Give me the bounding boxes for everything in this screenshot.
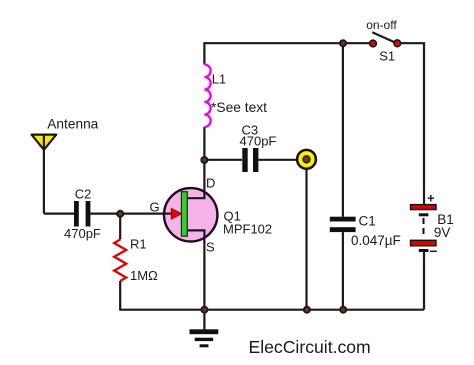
node ground junction	[201, 307, 207, 313]
svg-text:470pF: 470pF	[240, 133, 277, 148]
wire antenna to C2	[44, 213, 74, 215]
wire jack down to rail	[305, 170, 307, 310]
label S1	[379, 49, 395, 64]
wire R1 bottom lead	[119, 281, 121, 310]
svg-text:L1: L1	[212, 72, 226, 87]
node drain junction	[201, 157, 207, 163]
label G	[150, 200, 160, 215]
svg-text:G: G	[150, 200, 160, 215]
battery B1	[411, 205, 437, 252]
inductor L1	[204, 65, 210, 128]
svg-text:0.047µF: 0.047µF	[351, 233, 401, 248]
Q1 drain lead	[186, 158, 204, 198]
wire bottom rail	[119, 309, 424, 311]
svg-text:R1: R1	[130, 237, 147, 252]
label 9V	[434, 225, 451, 240]
wire L1 branch top	[203, 42, 205, 64]
node top rail junction	[340, 40, 346, 46]
Q1 gate arrow	[171, 208, 181, 219]
svg-text:ElecCircuit.com: ElecCircuit.com	[249, 337, 371, 357]
label battery plus	[427, 191, 435, 206]
svg-text:9V: 9V	[434, 225, 451, 240]
capacitor C1	[330, 217, 356, 232]
label R1 value 1M ohm	[130, 268, 158, 283]
label MPF102	[223, 222, 272, 237]
svg-text:470pF: 470pF	[64, 226, 101, 241]
Q1 gate lead stub	[163, 213, 172, 215]
wire source to rail	[203, 230, 205, 309]
label C3	[242, 123, 259, 138]
label C3 value 470pF	[240, 133, 277, 148]
wire R1 top lead	[119, 214, 121, 240]
label ElecCircuit.com	[249, 337, 371, 357]
capacitor C2	[74, 201, 90, 227]
wire C1 bottom	[342, 232, 344, 310]
wire node to C3	[204, 159, 242, 161]
svg-text:+: +	[427, 191, 435, 206]
svg-text:*See text: *See text	[211, 100, 267, 115]
wire top rail left segment	[204, 42, 372, 44]
svg-text:−: −	[429, 243, 437, 259]
output jack J1	[297, 150, 316, 169]
switch S1	[370, 32, 401, 47]
label battery minus	[429, 243, 437, 259]
svg-text:on-off: on-off	[366, 18, 397, 32]
ground	[190, 329, 219, 347]
svg-text:S1: S1	[379, 49, 395, 64]
wire C1 branch top	[342, 43, 344, 217]
svg-text:1MΩ: 1MΩ	[130, 268, 158, 283]
svg-text:C2: C2	[75, 187, 92, 202]
svg-text:C1: C1	[359, 214, 376, 229]
wire C3 to jack	[259, 159, 298, 161]
wire battery bottom to rail	[423, 252, 425, 310]
label Antenna	[47, 117, 98, 132]
node C1 bottom junction	[340, 307, 346, 313]
label Q1	[224, 208, 241, 223]
label B1	[437, 212, 454, 227]
label C1 value 0.047uF	[351, 233, 401, 248]
label D	[206, 176, 215, 191]
Q1 source lead	[186, 230, 204, 243]
antenna	[32, 135, 57, 150]
label see text	[211, 100, 267, 115]
wire top rail right segment	[398, 43, 425, 205]
wire C2 to gate	[91, 213, 172, 215]
label on-off	[366, 18, 397, 32]
label R1	[130, 237, 147, 252]
capacitor C3	[242, 148, 258, 172]
label C2	[75, 187, 92, 202]
Q1 gate channel bar	[181, 192, 187, 237]
svg-text:MPF102: MPF102	[223, 222, 272, 237]
wire ground stem	[203, 310, 205, 330]
svg-text:D: D	[206, 176, 215, 191]
node gate junction	[117, 211, 123, 217]
transistor Q1 body	[164, 188, 217, 241]
resistor R1	[114, 240, 126, 282]
wire antenna down	[43, 135, 45, 214]
node jack bottom junction	[304, 307, 310, 313]
label C1	[359, 214, 376, 229]
svg-text:S: S	[206, 240, 215, 255]
label C2 value 470pF	[64, 226, 101, 241]
wire L1 to drain node	[203, 127, 205, 160]
svg-text:Antenna: Antenna	[47, 117, 98, 132]
label L1	[212, 72, 226, 87]
label S	[206, 240, 215, 255]
